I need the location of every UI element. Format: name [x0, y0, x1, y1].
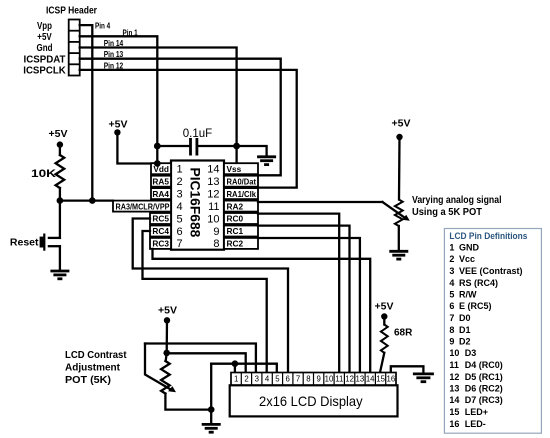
pot wiper arrow (contrast)	[145, 344, 176, 393]
potentiometer R2 5K	[395, 200, 403, 226]
svg-text:+5V: +5V	[109, 119, 128, 131]
wire +5V to 68R	[383, 317, 385, 325]
svg-text:11: 11	[208, 201, 219, 213]
wire resistor to MCLR node	[59, 188, 61, 201]
svg-text:14: 14	[366, 375, 375, 384]
node ground junction	[208, 406, 215, 413]
pin numbers right 14-8	[207, 164, 219, 251]
wire Gnd to Vss (Pin 14)	[80, 48, 237, 168]
node junction dot overlays	[154, 143, 240, 167]
svg-text:3: 3	[255, 375, 259, 384]
wire +5V to Vdd pin	[117, 132, 157, 163]
svg-text:13: 13	[356, 375, 365, 384]
svg-text:1: 1	[234, 375, 238, 384]
svg-text:RA1/Clk: RA1/Clk	[227, 189, 257, 199]
svg-text:2x16 LCD Display: 2x16 LCD Display	[259, 393, 363, 409]
node pot top junction	[163, 350, 170, 357]
LCD module body	[230, 385, 398, 416]
wire reset switch to ground	[59, 246, 61, 270]
svg-text:5: 5	[177, 213, 183, 225]
wire MCLR node to pin 4	[60, 199, 113, 201]
svg-text:16: 16	[387, 375, 396, 384]
svg-text:6: 6	[286, 375, 290, 384]
svg-text:2Vcc: 2Vcc	[449, 254, 475, 264]
svg-text:7: 7	[296, 375, 300, 384]
node junction Vdd/+5V	[154, 160, 161, 167]
svg-text:Vpp: Vpp	[37, 21, 52, 32]
wire RC5 to LCD pin 6	[133, 219, 288, 373]
svg-text:8: 8	[213, 238, 219, 250]
LCD pin numbers 1-16	[234, 375, 395, 384]
wire +5V down to pot top junction	[166, 320, 169, 353]
svg-text:1: 1	[177, 164, 183, 176]
node junction Vss/cap	[233, 143, 240, 150]
pin label box RC3 (pin 7)	[150, 238, 171, 249]
panel items	[449, 243, 522, 429]
svg-text:5R/W: 5R/W	[449, 290, 477, 300]
svg-text:Varying analog signal: Varying analog signal	[412, 195, 502, 206]
svg-text:RA0/Dat: RA0/Dat	[227, 176, 257, 186]
wire junction to LCD pin 1	[234, 364, 236, 373]
svg-text:13D6 (RC2): 13D6 (RC2)	[449, 384, 502, 394]
svg-text:2: 2	[177, 176, 183, 188]
node MCLR junction	[57, 197, 64, 204]
pin label box RA2 (pin 11)	[224, 201, 258, 212]
pot wiper arrow (5K POT)	[382, 202, 409, 221]
svg-text:Pin 14: Pin 14	[104, 38, 124, 48]
pin label box RA0/Dat (pin 13)	[224, 176, 258, 187]
svg-text:Pin 13: Pin 13	[104, 49, 124, 59]
pin label box RC4 (pin 6)	[150, 226, 171, 237]
svg-text:Pin 4: Pin 4	[95, 21, 110, 31]
wire +5V to pot	[398, 137, 401, 200]
wire junction to LCD pin 2 (Vcc)	[167, 353, 246, 372]
wire pot bottom to ground junction	[165, 394, 211, 410]
svg-text:12: 12	[207, 188, 219, 200]
svg-text:ICSP Header: ICSP Header	[46, 6, 97, 17]
svg-text:10K: 10K	[31, 168, 56, 180]
ground (5K pot)	[389, 251, 408, 259]
svg-text:RC2: RC2	[227, 239, 244, 249]
svg-text:Pin 12: Pin 12	[104, 60, 124, 70]
wire RC4 to LCD pin 4	[143, 231, 267, 373]
svg-text:RC1: RC1	[227, 226, 244, 236]
svg-text:15: 15	[376, 375, 385, 384]
resistor R1 10K	[56, 155, 65, 188]
svg-text:4: 4	[265, 375, 270, 384]
svg-text:1GND: 1GND	[449, 243, 479, 253]
svg-text:6: 6	[177, 226, 183, 238]
pin label box RC2 (pin 8)	[224, 238, 258, 249]
svg-text:9D2: 9D2	[449, 337, 470, 347]
ground (contrast pot)	[202, 424, 221, 432]
svg-text:RA4: RA4	[152, 189, 169, 199]
wire LCD pin 16 to ground	[391, 366, 424, 373]
svg-text:9: 9	[317, 375, 321, 384]
wire cap to ground	[237, 146, 267, 156]
svg-text:3VEE (Contrast): 3VEE (Contrast)	[449, 266, 522, 276]
pin label box RA4 (pin 3)	[151, 188, 171, 199]
wire cap right lead	[199, 145, 237, 147]
svg-text:LCD Pin Definitions: LCD Pin Definitions	[449, 231, 527, 241]
wire ground junction up to LCD gnd rail	[210, 364, 212, 410]
node +5V terminal dot	[396, 134, 402, 140]
ground (decoupling cap)	[257, 157, 276, 165]
svg-text:3: 3	[177, 188, 183, 200]
pin numbers left 1-7	[177, 164, 183, 251]
wire junction to ground symbol	[210, 410, 212, 424]
svg-text:Pin 1: Pin 1	[123, 27, 138, 37]
capacitor C1 plates	[191, 138, 197, 156]
pin label box RC5 (pin 5)	[150, 213, 171, 224]
ICSP header connector J1	[69, 20, 80, 76]
svg-text:Vss: Vss	[227, 164, 242, 174]
svg-text:POT (5K): POT (5K)	[65, 374, 111, 386]
svg-text:16LED-: 16LED-	[449, 419, 485, 429]
svg-text:Adjustment: Adjustment	[65, 361, 120, 373]
label LCD Contrast Adjustment POT (5K)	[65, 349, 127, 386]
svg-text:Reset: Reset	[10, 236, 39, 248]
svg-text:68R: 68R	[394, 328, 413, 339]
svg-text:14D7 (RC3): 14D7 (RC3)	[449, 395, 502, 405]
svg-text:+5V: +5V	[158, 305, 177, 317]
wire 68R to LCD pin 15	[380, 353, 384, 373]
wire RC0 to LCD pin 11	[258, 214, 339, 373]
pushbutton SW1 Reset	[40, 234, 60, 251]
svg-text:15LED+: 15LED+	[449, 407, 488, 417]
svg-text:4: 4	[177, 201, 183, 213]
svg-text:RC5: RC5	[152, 214, 169, 224]
pin label box RA3/MCLR/VPP (pin 4)	[113, 201, 171, 212]
wire RC3 to LCD pin 14	[153, 249, 371, 373]
svg-text:Gnd: Gnd	[37, 43, 53, 54]
svg-text:LCD Contrast: LCD Contrast	[65, 349, 127, 361]
svg-text:PIC16F688: PIC16F688	[188, 168, 203, 238]
svg-text:12: 12	[345, 375, 354, 384]
svg-text:RC3: RC3	[152, 239, 169, 249]
LCD pin definitions panel	[444, 229, 541, 434]
wire +5V to resistor	[59, 145, 61, 155]
node +5V terminal dot	[381, 313, 387, 319]
ground (LCD pin 16)	[413, 374, 434, 382]
node +5V terminal dot	[164, 317, 170, 323]
svg-text:+5V: +5V	[49, 128, 68, 140]
svg-text:RA2: RA2	[227, 201, 244, 211]
svg-text:2: 2	[244, 375, 248, 384]
pin label box RA1/Clk (pin 12)	[224, 188, 258, 199]
wire junction down to pot element	[166, 353, 167, 361]
wire MCLR node to reset switch	[59, 201, 61, 238]
svg-text:RC0: RC0	[227, 214, 244, 224]
node junction Vdd/cap	[154, 143, 161, 150]
svg-text:14: 14	[207, 164, 219, 176]
svg-text:8: 8	[306, 375, 310, 384]
wire wiper to LCD pin 3 (VEE)	[145, 344, 256, 373]
ground (reset)	[50, 271, 69, 279]
svg-text:ICSPDAT: ICSPDAT	[24, 54, 66, 65]
pin label box RA5 (pin 2)	[151, 176, 171, 187]
svg-text:+5V: +5V	[375, 301, 394, 313]
svg-text:RC4: RC4	[152, 226, 169, 236]
svg-text:+5V: +5V	[37, 32, 52, 43]
potentiometer R3 contrast 5K	[161, 361, 170, 394]
ICSP pin name labels	[23, 21, 66, 77]
wire pot to ground	[398, 226, 400, 251]
node +5V terminal dot	[114, 129, 120, 135]
svg-text:RA5: RA5	[152, 176, 169, 186]
wire RA2 to pot wiper	[258, 201, 382, 203]
wire ICSPCLK to RA1/Clk (Pin 12)	[80, 70, 297, 188]
svg-text:RA3/MCLR/VPP: RA3/MCLR/VPP	[116, 201, 170, 211]
svg-text:ICSPCLK: ICSPCLK	[23, 66, 66, 77]
node +5V terminal dot	[57, 141, 63, 147]
svg-text:11: 11	[335, 375, 343, 384]
svg-text:13: 13	[207, 176, 219, 188]
svg-text:5: 5	[275, 375, 280, 384]
node Vpp junction	[89, 197, 96, 204]
LCD pin header boxes 1-16	[231, 373, 396, 386]
svg-text:11D4 (RC0): 11D4 (RC0)	[449, 360, 502, 370]
pin label box RC1 (pin 9)	[224, 226, 258, 237]
pin label box Vdd (pin 1)	[151, 163, 171, 174]
svg-text:8D1: 8D1	[449, 325, 470, 335]
wire ICSPDAT to RA0/Dat (Pin 13)	[80, 59, 281, 176]
svg-text:12D5 (RC1): 12D5 (RC1)	[449, 372, 502, 382]
svg-text:Using a 5K POT: Using a 5K POT	[412, 207, 482, 218]
resistor R4 68R	[381, 325, 388, 353]
op IC U1 PIC16F688 body	[171, 161, 224, 250]
wire gnd rail to LCD pins 1 and 5	[211, 364, 277, 373]
svg-text:+5V: +5V	[392, 118, 411, 130]
pin label box Vss (pin 14)	[224, 163, 258, 174]
svg-text:10: 10	[325, 375, 334, 384]
wire cap left lead	[157, 145, 188, 147]
svg-text:7: 7	[177, 238, 183, 250]
svg-text:10: 10	[207, 213, 219, 225]
wire Vpp to MCLR (Pin 4)	[80, 25, 93, 201]
wire +5V to Vdd (Pin 1)	[80, 36, 158, 167]
node LCD pin1 junction	[232, 360, 239, 367]
svg-text:9: 9	[213, 226, 219, 238]
svg-text:7D0: 7D0	[449, 313, 470, 323]
pin label box RC0 (pin 10)	[224, 213, 258, 224]
wire RC1 to LCD pin 12	[258, 226, 350, 373]
wire RC2 to LCD pin 13	[258, 238, 360, 373]
